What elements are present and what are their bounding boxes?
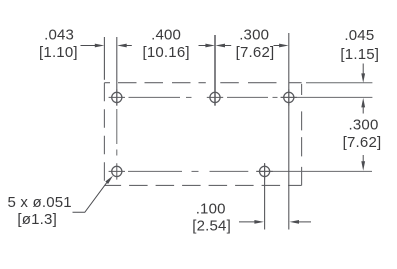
svg-text:.400: .400 [151, 27, 181, 44]
svg-text:.043: .043 [44, 27, 74, 44]
svg-text:[ø1.3]: [ø1.3] [17, 211, 57, 228]
svg-text:[2.54]: [2.54] [192, 217, 231, 234]
svg-text:.300: .300 [239, 27, 269, 44]
svg-text:.045: .045 [344, 27, 374, 44]
svg-text:[7.62]: [7.62] [236, 44, 275, 61]
svg-text:.300: .300 [349, 116, 379, 133]
svg-text:[7.62]: [7.62] [343, 134, 382, 151]
svg-text:[10.16]: [10.16] [142, 44, 189, 61]
svg-text:[1.15]: [1.15] [340, 46, 379, 63]
svg-text:[1.10]: [1.10] [39, 44, 78, 61]
svg-text:5 x ø.051: 5 x ø.051 [8, 194, 72, 211]
svg-text:.100: .100 [196, 200, 226, 217]
